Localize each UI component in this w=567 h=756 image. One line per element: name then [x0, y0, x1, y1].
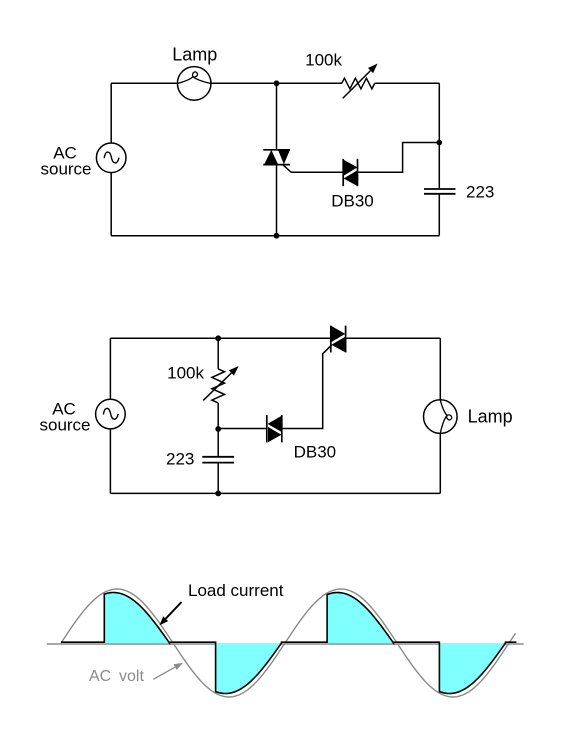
arrow: AC volt pointer (gray) [153, 667, 175, 679]
waveform: load current cyan fill lobe 2 [216, 643, 282, 694]
wire: circuit 2 bottom rail [110, 492, 440, 494]
waveform: load current cyan fill lobe 1 [104, 593, 169, 644]
capacitor 223 (circuit 1) [424, 189, 456, 194]
wire: circuit 2 DIAC to triac gate [282, 345, 332, 429]
waveform: load current cyan fill lobe 3 [327, 593, 393, 644]
lamp (circuit 1) [177, 67, 211, 101]
wire: circuit 1 DIAC to capacitor top node [358, 143, 440, 173]
node: circuit 1 top junction [274, 80, 280, 86]
node: circuit 2 top junction [215, 335, 221, 341]
wire: circuit 2 left vertical (AC source branch) [109, 338, 111, 493]
diac DB30 (circuit 1) [343, 159, 357, 186]
triac (circuit 2) [331, 326, 346, 353]
wire: circuit 2 right vertical with lamp [439, 338, 441, 493]
waveform: AC voltage sine (gray) [61, 589, 516, 697]
wire: circuit 1 top rail pot to right corner [375, 82, 440, 84]
waveform: gray horizontal axis [47, 643, 524, 645]
wire: circuit 2 top rail left of triac [110, 337, 330, 339]
arrow: load current pointer [166, 602, 182, 619]
AC source (circuit 1) [96, 143, 126, 173]
svg-text:volt: volt [119, 668, 144, 685]
wire: circuit 1 top rail left segment [111, 82, 177, 84]
diac DB30 (circuit 2) [267, 415, 282, 442]
wire: circuit 1 left vertical (AC source branch) [110, 83, 112, 235]
wire: circuit 2 mid node to DIAC [218, 428, 267, 430]
wire: circuit 2 top rail right of triac [346, 337, 441, 339]
lamp (circuit 2) [424, 400, 458, 434]
wire: circuit 2 mid node to capacitor [217, 429, 219, 456]
potentiometer 100k (circuit 2) [212, 369, 225, 403]
wire: circuit 2 capacitor to bottom rail [217, 463, 219, 493]
svg-text:100k: 100k [305, 51, 342, 70]
wire: circuit 2 middle branch, top to pot [217, 338, 219, 369]
node: circuit 2 bottom junction [215, 491, 221, 497]
wire: circuit 1 right vertical, top corner to capacitor [438, 83, 440, 188]
node: circuit 1 bottom junction [274, 233, 280, 239]
svg-text:DB30: DB30 [331, 192, 374, 211]
svg-text:source: source [39, 416, 90, 435]
svg-text:223: 223 [466, 183, 494, 202]
svg-text:source: source [40, 160, 91, 179]
wire: circuit 1 top rail lamp to pot [211, 82, 342, 84]
waveform: load current cyan fill lobe 4 [439, 643, 505, 694]
svg-text:Lamp: Lamp [172, 45, 217, 65]
wire: circuit 1 capacitor to bottom rail [438, 194, 440, 235]
wire: circuit 2 middle branch, pot to mid node [217, 403, 219, 429]
AC source (circuit 2) [96, 399, 126, 429]
svg-text:DB30: DB30 [294, 443, 337, 462]
svg-text:AC: AC [89, 668, 111, 685]
svg-text:Lamp: Lamp [468, 406, 513, 426]
triac (circuit 1) [263, 150, 290, 165]
capacitor 223 (circuit 2) [202, 457, 234, 463]
svg-text:Load current: Load current [188, 581, 284, 600]
waveform: load current curve (black) [61, 593, 516, 694]
potentiometer 100k (circuit 1) [342, 78, 375, 89]
node: circuit 1 capacitor top junction [436, 140, 442, 146]
svg-text:223: 223 [166, 450, 194, 469]
node: circuit 2 middle junction [215, 426, 221, 432]
wire: circuit 1 bottom rail [111, 235, 439, 237]
svg-text:100k: 100k [167, 364, 204, 383]
wire: circuit 1 gate horizontal to DIAC [283, 165, 343, 172]
wire: circuit 1 TRIAC branch vertical [276, 83, 278, 235]
